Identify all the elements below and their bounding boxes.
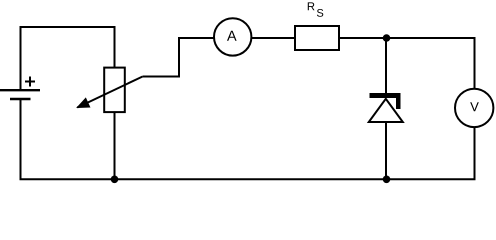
- wire: battery - down to bottom rail: [20, 99, 22, 179]
- resistor Rs body: [295, 26, 339, 50]
- wire: bottom rail: [20, 178, 476, 180]
- potentiometer R1 body: [104, 68, 125, 113]
- wire: top rail corner down to voltmeter: [474, 37, 476, 89]
- ammeter A1: [214, 18, 251, 55]
- battery polarity label +: [25, 77, 35, 87]
- wire: potentiometer bottom lead: [114, 112, 116, 179]
- zener diode D1 anode triangle: [369, 99, 403, 122]
- wire: voltmeter down to bottom rail: [474, 127, 476, 180]
- wire: node down to zener cathode: [385, 38, 387, 96]
- potentiometer wiper arrow: [77, 77, 142, 108]
- battery B1 positive plate: [0, 89, 40, 91]
- junction: potentiometer bottom node: [111, 176, 119, 184]
- wire: Rs to voltmeter branch (top rail right): [339, 37, 475, 39]
- wire: zener anode down to bottom rail: [385, 122, 387, 179]
- voltmeter V1: [455, 89, 493, 127]
- junction: Rs / zener node: [383, 34, 391, 42]
- label Rs: [308, 2, 315, 10]
- junction: zener bottom node: [383, 176, 391, 184]
- battery B1 negative plate: [10, 98, 31, 100]
- wire: ammeter to Rs: [251, 37, 295, 39]
- wire: battery top loop (battery + to potentiometer top): [21, 27, 115, 90]
- zener diode D1 cathode bar with hook: [370, 93, 401, 109]
- wire: wiper to ammeter (jog up): [143, 38, 215, 77]
